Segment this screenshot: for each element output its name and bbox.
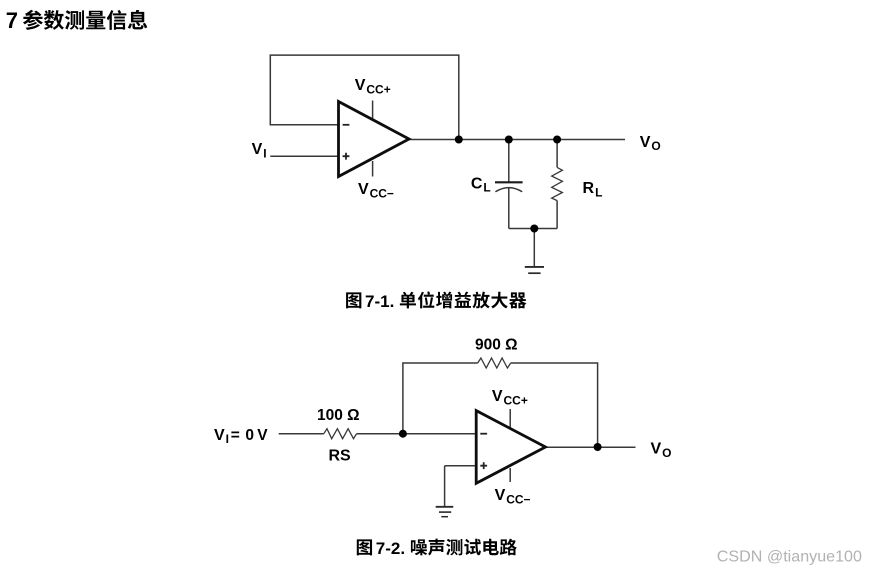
wire CL bottom stem	[508, 188, 510, 229]
svg-text:7-2.: 7-2.	[376, 539, 405, 558]
node dot ground C1	[530, 225, 538, 233]
svg-text:O: O	[662, 446, 671, 460]
op-amp U2 plus sign	[480, 462, 487, 469]
resistor 100ohm zigzag	[324, 429, 357, 439]
section title CJK	[23, 10, 147, 30]
caption figure 7-1 CJK text	[400, 291, 527, 308]
wire feedback right C2	[511, 363, 598, 447]
wire RL bottom stem	[556, 201, 558, 229]
svg-text:V: V	[214, 427, 225, 444]
wire feedback left C2	[403, 363, 478, 434]
svg-text:=: =	[231, 427, 240, 444]
svg-text:CC+: CC+	[366, 82, 390, 96]
svg-text:100 Ω: 100 Ω	[317, 407, 360, 424]
svg-text:V: V	[355, 77, 366, 94]
svg-text:7: 7	[6, 8, 18, 33]
resistor RL zigzag	[552, 167, 563, 200]
caption figure 7-2 CJK text	[411, 539, 517, 556]
svg-text:V: V	[492, 388, 503, 405]
wire ground stem C1	[533, 229, 535, 267]
wire CL top drop	[508, 140, 510, 183]
svg-text:V: V	[252, 141, 263, 158]
resistor 900ohm zigzag	[478, 358, 511, 368]
wire RL top drop	[556, 140, 558, 168]
node dot CL top	[505, 136, 513, 144]
wire input VI=0V	[279, 433, 324, 435]
wire output C1	[409, 139, 625, 141]
svg-text:I: I	[226, 432, 229, 446]
node dot RL top	[553, 136, 561, 144]
wire feedback loop C1	[270, 55, 459, 139]
wire VCC- stem C2	[509, 468, 511, 482]
wire VCC- stem C1	[372, 161, 374, 177]
svg-text:R: R	[583, 180, 595, 197]
ground symbol C1	[525, 267, 544, 273]
svg-text:V: V	[651, 441, 662, 458]
op-amp U2 minus sign	[480, 433, 487, 435]
capacitor CL curved plate	[495, 188, 522, 192]
ground symbol C2	[436, 507, 454, 517]
node dot output C1	[455, 136, 463, 144]
svg-text:O: O	[651, 139, 660, 153]
svg-text:L: L	[483, 181, 490, 195]
capacitor CL straight plate	[495, 181, 523, 183]
wire VCC+ stem C1	[372, 101, 374, 120]
op-amp U2 triangle	[476, 411, 545, 484]
svg-text:V: V	[257, 427, 268, 444]
svg-text:RS: RS	[329, 447, 352, 464]
node dot feedback C2	[399, 430, 407, 438]
caption figure 7-1 CJK tu	[346, 292, 361, 308]
caption figure 7-2 CJK tu	[357, 539, 372, 555]
wire output C2	[546, 446, 636, 448]
svg-text:900 Ω: 900 Ω	[475, 336, 518, 353]
wire Vi to + input	[270, 155, 338, 157]
svg-text:0: 0	[245, 427, 254, 444]
svg-text:CC−: CC−	[370, 186, 394, 200]
svg-text:7-1.: 7-1.	[365, 292, 394, 311]
svg-text:L: L	[595, 186, 602, 200]
op-amp U1 plus sign	[343, 153, 350, 160]
svg-text:V: V	[640, 134, 651, 151]
svg-text:C: C	[471, 175, 483, 192]
svg-text:I: I	[263, 146, 266, 160]
node dot output C2	[594, 443, 602, 451]
svg-text:V: V	[358, 181, 369, 198]
svg-text:CSDN @tianyue100: CSDN @tianyue100	[717, 547, 862, 565]
svg-text:CC+: CC+	[504, 394, 528, 408]
svg-text:CC−: CC−	[506, 492, 530, 506]
wire VCC+ stem C2	[509, 409, 511, 428]
wire + input C2	[445, 465, 477, 467]
wire bottom joining CL RL	[509, 228, 557, 230]
op-amp U1 triangle	[339, 102, 410, 177]
wire ground stem C2	[444, 466, 446, 507]
wire RS to - input	[357, 433, 477, 435]
op-amp U1 minus sign	[343, 124, 350, 126]
svg-text:V: V	[495, 487, 506, 504]
